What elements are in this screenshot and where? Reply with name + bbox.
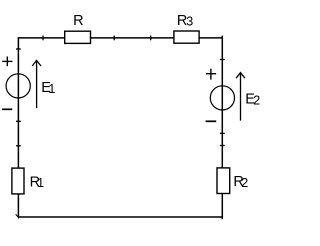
wire top (node between R and R3): [18, 37, 222, 39]
E2 direction arrow: [240, 73, 242, 120]
svg-text:3: 3: [186, 15, 193, 29]
node tick on left wire at y=146: [16, 145, 21, 147]
voltage source E1 (circle): [6, 74, 30, 98]
junction bottom-left corner: [18, 216, 20, 220]
node tick on right wire at y=133: [220, 132, 225, 134]
resistor R1 (body): [12, 168, 24, 194]
voltage source E2 (circle): [210, 86, 234, 110]
node tick on right wire at y=145.5: [220, 145, 225, 147]
node tick on top wire at x=43: [42, 36, 44, 41]
node tick on right wire at y=59.5: [220, 59, 225, 61]
E1 direction arrow: [36, 61, 38, 108]
svg-text:2: 2: [253, 94, 260, 108]
resistor R2 (body): [217, 168, 230, 194]
wire left branch: [17, 37, 19, 217]
resistor R (body): [65, 31, 91, 43]
svg-text:1: 1: [37, 176, 44, 190]
node tick on left wire at y=49: [16, 48, 21, 50]
wire bottom: [18, 216, 222, 218]
E2 plus sign: [206, 73, 216, 75]
svg-text:R: R: [73, 13, 83, 29]
node tick on top wire at x=150.7: [150, 36, 152, 41]
wire right branch: [221, 36, 223, 220]
svg-text:2: 2: [241, 176, 248, 190]
svg-text:1: 1: [48, 82, 55, 96]
node tick on top wire at x=114: [113, 36, 115, 41]
E1 minus sign: [2, 108, 12, 110]
E2 minus sign: [206, 120, 217, 122]
resistor R3 (body): [174, 31, 199, 43]
node tick on left wire at y=121: [16, 120, 21, 122]
E1 plus sign: [2, 60, 12, 62]
